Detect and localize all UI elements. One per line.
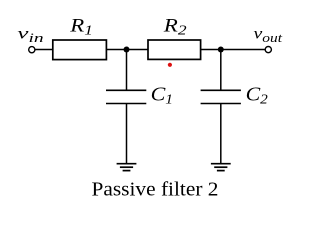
wire R1 to R2	[106, 49, 148, 51]
wire node2 down to C2	[220, 50, 222, 91]
wire R2 to vout	[201, 49, 266, 51]
capacitor C2	[201, 90, 241, 103]
ground 1	[117, 164, 137, 171]
svg-text:C2: C2	[246, 84, 268, 108]
resistor R2	[148, 40, 201, 59]
node vout terminal	[265, 47, 271, 53]
svg-text:vin: vin	[17, 26, 43, 45]
wire node1 down to C1	[126, 50, 128, 91]
svg-text:Passive filter 2: Passive filter 2	[92, 179, 219, 201]
node vin terminal	[29, 47, 35, 53]
capacitor C1	[106, 90, 146, 103]
svg-text:C1: C1	[151, 84, 173, 108]
ground 2	[211, 164, 231, 171]
junction node 2	[218, 47, 224, 53]
wire C1 to ground	[126, 104, 128, 164]
svg-text:vout: vout	[254, 26, 283, 45]
wire C2 to ground	[220, 104, 222, 164]
wire vin to R1	[35, 49, 53, 51]
svg-text:R2: R2	[163, 17, 187, 39]
junction node 1	[124, 47, 130, 53]
red dot marker	[168, 63, 172, 67]
resistor R1	[53, 40, 107, 60]
svg-text:R1: R1	[69, 17, 93, 39]
